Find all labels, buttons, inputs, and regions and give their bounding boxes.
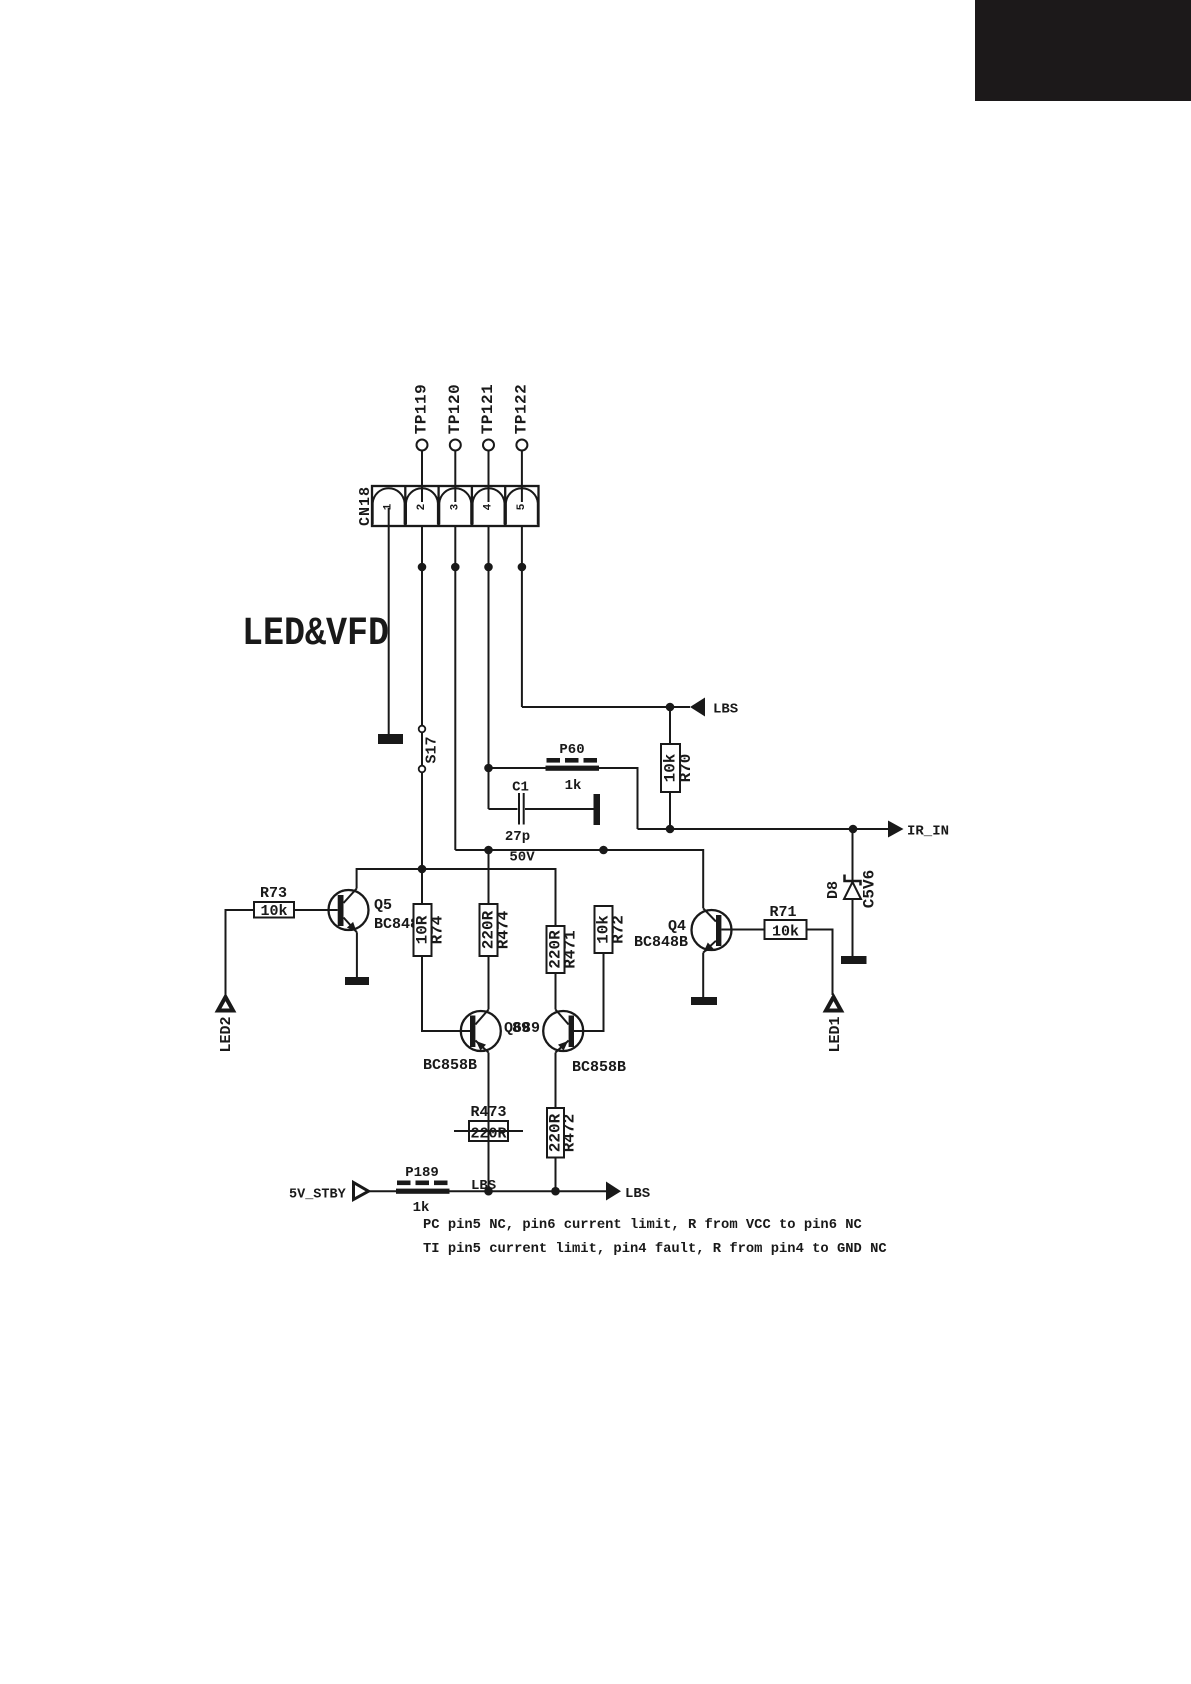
- wire R474 to Q99 collector: [488, 956, 490, 1010]
- svg-text:R471: R471: [562, 930, 580, 968]
- wire Q4 base to R71: [721, 929, 764, 931]
- svg-text:CN18: CN18: [357, 486, 374, 526]
- svg-text:PC pin5 NC, pin6 current limit: PC pin5 NC, pin6 current limit, R from V…: [423, 1217, 862, 1233]
- svg-text:TP119: TP119: [413, 384, 431, 435]
- wire pin3 net down: [454, 526, 456, 850]
- wire R71 to LED1: [807, 930, 833, 996]
- resistor R70: [661, 707, 695, 829]
- wire Q99 emitter through R473: [488, 1121, 490, 1141]
- node D8 to IR_IN rail: [849, 825, 858, 834]
- node R474 top: [484, 846, 493, 855]
- test point TP119: [417, 440, 428, 451]
- wire TP120 to connector pin3: [454, 451, 456, 503]
- ferrite bead P60: [546, 742, 600, 794]
- svg-text:5: 5: [516, 503, 528, 510]
- svg-text:BC858B: BC858B: [423, 1057, 477, 1074]
- header redaction block: [975, 0, 1191, 101]
- wire IR_IN rail: [638, 828, 889, 830]
- svg-text:LED1: LED1: [827, 1016, 844, 1052]
- svg-text:50V: 50V: [509, 850, 535, 866]
- svg-text:P189: P189: [405, 1165, 439, 1181]
- svg-text:TI pin5 current limit, pin4 fa: TI pin5 current limit, pin4 fault, R fro…: [423, 1241, 887, 1257]
- svg-text:LBS: LBS: [713, 702, 738, 718]
- svg-text:Q5: Q5: [374, 897, 392, 914]
- node LBS branch: [666, 703, 675, 712]
- wire R73 to Q5 base: [294, 909, 338, 911]
- wire pin4 net down: [488, 526, 490, 809]
- wire TP119 to connector pin2: [421, 451, 423, 503]
- wire R74 to Q99 base: [422, 956, 470, 1031]
- svg-text:LBS: LBS: [625, 1186, 650, 1202]
- port IR_IN: [888, 821, 904, 838]
- resistor R471: [547, 926, 580, 973]
- svg-text:3: 3: [449, 503, 461, 510]
- port LBS (bottom): [606, 1182, 621, 1201]
- ground bar pin1: [378, 734, 403, 744]
- wire pin1 to ground: [388, 508, 390, 734]
- svg-text:R72: R72: [610, 915, 628, 944]
- wire rail TP120 net (horizontal): [455, 850, 703, 908]
- svg-text:27p: 27p: [505, 829, 530, 845]
- svg-text:R70: R70: [677, 754, 695, 783]
- wire pin5 net down: [521, 526, 523, 707]
- svg-text:TP121: TP121: [479, 384, 497, 435]
- resistor R73: [254, 885, 294, 920]
- svg-text:LED&VFD: LED&VFD: [242, 612, 389, 657]
- wire pin5 net to LBS: [522, 706, 690, 708]
- svg-text:LED2: LED2: [218, 1016, 235, 1052]
- svg-text:4: 4: [483, 503, 495, 510]
- node on pin3 wire: [451, 563, 460, 572]
- svg-text:2: 2: [416, 504, 428, 511]
- jumper S17: [421, 725, 423, 869]
- node on pin4 wire: [484, 563, 493, 572]
- capacitor C1: [489, 780, 594, 866]
- node on pin2 wire: [418, 563, 427, 572]
- wire TP122 to connector pin5: [521, 451, 523, 503]
- node P60 branch: [484, 764, 493, 773]
- ground bar Q4: [691, 997, 717, 1005]
- transistor Q99 BC858B (left): [461, 1010, 501, 1053]
- wire LED2 to R73: [226, 910, 255, 995]
- svg-text:R73: R73: [260, 885, 287, 902]
- transistor Q2 BC858B (right): [543, 1010, 583, 1053]
- svg-text:10k: 10k: [260, 903, 287, 920]
- svg-text:S17: S17: [424, 736, 441, 763]
- wire pin2 net down: [421, 526, 423, 725]
- svg-text:TP120: TP120: [446, 384, 464, 435]
- wire R471 to Q2 collector: [555, 973, 557, 1010]
- test point TP120: [450, 440, 461, 451]
- ground bar C1: [594, 794, 601, 825]
- svg-text:R71: R71: [769, 904, 796, 921]
- svg-text:89: 89: [512, 1020, 530, 1037]
- zener diode D8 C5V6: [825, 829, 879, 956]
- wire R472 to LBS rail: [555, 1158, 557, 1192]
- resistor R72: [595, 906, 628, 953]
- svg-text:10k: 10k: [772, 924, 799, 941]
- connector CN18 body: [372, 486, 539, 526]
- resistor R473 (not fitted): [454, 1104, 523, 1143]
- svg-text:1k: 1k: [413, 1200, 430, 1216]
- port LED2: [218, 997, 233, 1011]
- wire Q99 emitter to LBS rail: [488, 1053, 490, 1192]
- svg-text:P60: P60: [559, 742, 584, 758]
- wire TP121 to connector pin4: [488, 451, 490, 503]
- svg-text:R74: R74: [429, 915, 447, 944]
- port LED1: [826, 997, 841, 1011]
- wire Q2 emitter to R472: [555, 1053, 557, 1109]
- node Q99 emitter to rail: [484, 1187, 493, 1196]
- node on pin5 wire: [518, 563, 527, 572]
- node R72 top: [599, 846, 608, 855]
- svg-text:C1: C1: [512, 780, 529, 796]
- transistor Q5: [329, 889, 369, 977]
- resistor R474: [480, 850, 513, 956]
- ferrite bead P189: [396, 1165, 450, 1216]
- wire LBS bottom rail: [369, 1190, 607, 1192]
- svg-text:TP122: TP122: [512, 384, 530, 435]
- svg-text:R474: R474: [495, 910, 513, 949]
- test point TP121: [483, 440, 494, 451]
- resistor R472: [547, 1108, 579, 1158]
- svg-text:BC848B: BC848B: [634, 934, 688, 951]
- svg-text:BC858B: BC858B: [572, 1059, 626, 1076]
- wire pin4 net / P60 to corner: [489, 768, 638, 829]
- ground bar D8: [841, 956, 867, 964]
- connector CN18 pin contact arcs: [373, 488, 538, 524]
- test point TP122: [516, 440, 527, 451]
- node R472 to rail: [551, 1187, 560, 1196]
- port LBS (top): [690, 698, 705, 717]
- svg-text:D8: D8: [825, 881, 842, 899]
- svg-text:1k: 1k: [565, 778, 582, 794]
- wire R72 to Q2 base: [574, 953, 604, 1031]
- svg-text:R473: R473: [470, 1104, 506, 1121]
- svg-text:R472: R472: [561, 1114, 579, 1152]
- node TP119 rail junction: [418, 865, 427, 874]
- svg-text:C5V6: C5V6: [861, 870, 879, 908]
- ground bar Q5: [345, 977, 369, 985]
- wire rail TP119 net (horizontal): [357, 869, 556, 926]
- resistor R71: [765, 904, 807, 941]
- svg-text:Q4: Q4: [668, 918, 686, 935]
- svg-text:IR_IN: IR_IN: [907, 824, 949, 840]
- svg-text:5V_STBY: 5V_STBY: [289, 1188, 347, 1203]
- transistor Q4: [692, 908, 732, 997]
- resistor R74: [414, 869, 447, 956]
- node R70 to IR_IN rail: [666, 825, 675, 834]
